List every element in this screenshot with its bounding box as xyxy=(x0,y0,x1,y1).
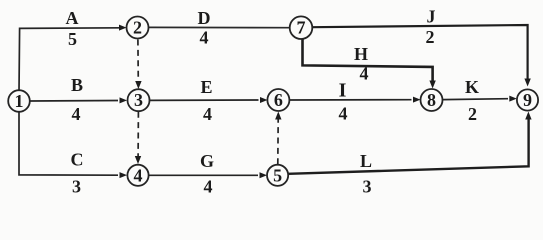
arrowhead B into node 3 xyxy=(120,97,128,103)
svg-text:E: E xyxy=(200,77,212,97)
svg-text:8: 8 xyxy=(427,90,436,110)
svg-text:B: B xyxy=(71,75,83,95)
node 7 xyxy=(290,16,313,39)
wire J: node7 right, down into node9 xyxy=(313,25,528,80)
arrowhead E into node 6 xyxy=(260,97,268,103)
svg-text:5: 5 xyxy=(68,29,77,49)
svg-text:4: 4 xyxy=(200,28,209,48)
wire H: node7 down, right, down into node8 xyxy=(303,39,433,82)
wire L: node5 right, up into node9 xyxy=(288,118,528,174)
svg-text:3: 3 xyxy=(72,177,81,197)
svg-text:9: 9 xyxy=(523,90,532,110)
arrowhead I into node 8 xyxy=(413,97,421,103)
dummy wire 2-3 dashed down xyxy=(137,40,139,83)
svg-text:G: G xyxy=(200,151,214,171)
wire C: node1 down and right to node4 xyxy=(19,113,118,176)
svg-text:4: 4 xyxy=(72,104,81,124)
arrowhead G into node 5 xyxy=(260,172,268,178)
svg-text:J: J xyxy=(427,7,436,27)
svg-text:1: 1 xyxy=(15,91,24,111)
svg-text:2: 2 xyxy=(133,18,142,38)
svg-text:5: 5 xyxy=(273,165,282,185)
arrowhead dummy into node 3 top xyxy=(135,81,141,89)
arrowhead A into node 2 xyxy=(119,25,127,31)
svg-text:H: H xyxy=(354,44,368,64)
wire I: node6 right to node8 xyxy=(290,99,412,101)
wire K: node8 right to node9 xyxy=(443,98,508,101)
svg-text:4: 4 xyxy=(204,177,213,197)
svg-text:4: 4 xyxy=(134,165,143,185)
wire E: node3 right to node6 xyxy=(150,99,259,101)
wire B: node1 right to node3 xyxy=(31,100,119,103)
dummy wire 3-4 dashed down xyxy=(137,112,139,157)
svg-text:7: 7 xyxy=(297,18,306,38)
node 8 xyxy=(421,89,443,111)
svg-text:4: 4 xyxy=(339,104,348,124)
node 5 xyxy=(267,165,288,186)
svg-text:K: K xyxy=(465,77,479,97)
dummy wire 5-6 dashed up xyxy=(277,119,279,165)
node 4 xyxy=(127,165,148,186)
svg-text:I: I xyxy=(339,80,347,102)
svg-text:C: C xyxy=(71,150,84,170)
svg-text:L: L xyxy=(360,151,372,171)
arrowhead J into node 9 top xyxy=(524,79,530,87)
node 2 xyxy=(127,17,149,39)
arrowhead dummy into node 4 top xyxy=(135,156,141,164)
svg-text:2: 2 xyxy=(426,27,435,47)
wire A: node1 up and right to node2 xyxy=(19,28,122,92)
wire G: node4 right to node5 xyxy=(149,174,259,176)
node 6 xyxy=(267,89,289,111)
arrowhead L into node 9 bottom xyxy=(525,112,531,120)
wire D: node2 right to node7 xyxy=(149,26,290,28)
svg-text:3: 3 xyxy=(134,90,143,110)
node 3 xyxy=(128,89,150,111)
arrowhead C into node 4 xyxy=(120,172,128,178)
arrowhead H into node 8 top xyxy=(429,81,435,89)
node 9 xyxy=(517,89,538,110)
svg-text:3: 3 xyxy=(363,177,372,197)
arrowhead K into node 9 xyxy=(509,96,517,102)
svg-text:D: D xyxy=(198,8,211,28)
svg-text:4: 4 xyxy=(203,104,212,124)
svg-text:2: 2 xyxy=(468,104,477,124)
svg-text:6: 6 xyxy=(274,90,283,110)
arrowhead dummy into node 6 bottom xyxy=(275,112,281,120)
node 1 xyxy=(8,90,30,112)
svg-text:A: A xyxy=(66,8,79,28)
svg-text:4: 4 xyxy=(360,64,369,84)
